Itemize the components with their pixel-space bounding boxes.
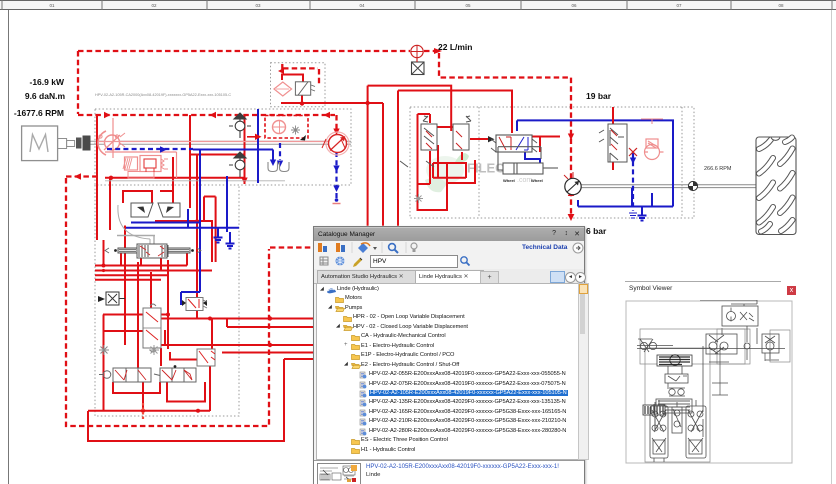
svg-text:Wheel: Wheel — [531, 178, 543, 183]
svg-text:HPV-02-A2-105R-CA2000(Axx08-42: HPV-02-A2-105R-CA2000(Axx08-42019F)-xxxx… — [95, 93, 231, 97]
svg-text:08: 08 — [778, 3, 784, 8]
svg-text:-16.9 kW: -16.9 kW — [30, 77, 65, 87]
svg-text:266.6 RPM: 266.6 RPM — [704, 166, 732, 172]
svg-text:05: 05 — [465, 3, 471, 8]
svg-text:01: 01 — [49, 3, 55, 8]
svg-text:07: 07 — [676, 3, 682, 8]
svg-text:22 L/min: 22 L/min — [438, 42, 472, 52]
svg-text:Wheel: Wheel — [503, 178, 515, 183]
svg-text:04: 04 — [359, 3, 365, 8]
svg-text:06: 06 — [571, 3, 577, 8]
svg-text:19 bar: 19 bar — [586, 91, 612, 101]
svg-text:9.6 daN.m: 9.6 daN.m — [25, 91, 66, 101]
svg-text:6 bar: 6 bar — [586, 226, 607, 236]
svg-text:03: 03 — [255, 3, 261, 8]
svg-text:02: 02 — [151, 3, 157, 8]
svg-text:-1677.6 RPM: -1677.6 RPM — [14, 108, 64, 118]
